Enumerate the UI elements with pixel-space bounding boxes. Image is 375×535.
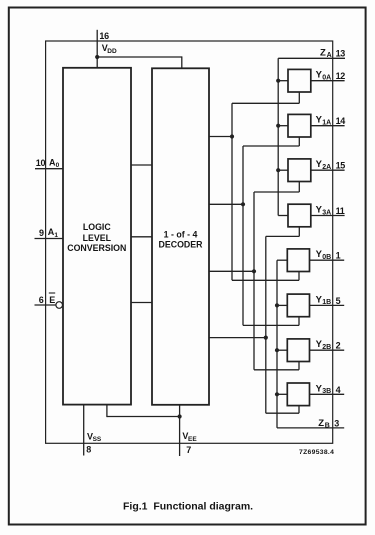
- pin 10 wire A0: [35, 168, 63, 170]
- node junction on bus at Y1A: [276, 124, 280, 128]
- VSS label: [87, 431, 102, 443]
- node Y1A label: [316, 115, 332, 127]
- transmission gate switch Y2A: [288, 159, 311, 182]
- inverter bubble on E input: [56, 302, 63, 309]
- wire bus stub to Y0B: [277, 259, 287, 261]
- wire control stub of Y0A: [232, 92, 299, 103]
- svg-text:1A: 1A: [322, 120, 331, 127]
- wire Y3A pin line: [311, 215, 345, 217]
- wire Y0B pin line: [310, 259, 345, 261]
- svg-text:7Z69538.4: 7Z69538.4: [299, 449, 334, 456]
- pin 1 label: [336, 251, 341, 261]
- svg-text:DECODER: DECODER: [159, 239, 204, 249]
- pin 15 label: [336, 161, 346, 171]
- pin 6 wire E enable: [35, 304, 56, 306]
- svg-text:7: 7: [186, 445, 191, 455]
- pin 7 label: [186, 445, 191, 455]
- IC outline box: [46, 41, 333, 443]
- wire decoder output 2: [209, 270, 254, 272]
- wire decoder output 3: [209, 337, 266, 339]
- transmission gate switch Y3A: [288, 204, 311, 227]
- node junction on bus at Y2A: [276, 168, 280, 172]
- node Y0A label: [316, 70, 332, 82]
- svg-text:2A: 2A: [322, 164, 331, 171]
- pin 4 label: [336, 385, 341, 395]
- svg-text:1B: 1B: [322, 299, 331, 306]
- svg-text:4: 4: [336, 385, 341, 395]
- wire Z_A bus: [277, 58, 279, 215]
- pin 3 label: [334, 419, 339, 429]
- wire Y0A pin line: [311, 80, 345, 82]
- svg-text:16: 16: [99, 31, 109, 41]
- pin 9 wire A1: [35, 238, 64, 240]
- wire bus stub to Y2B: [277, 349, 287, 351]
- svg-text:5: 5: [336, 296, 341, 306]
- svg-text:B: B: [325, 423, 330, 430]
- transmission gate switch Y0B: [287, 249, 309, 272]
- svg-text:6: 6: [39, 295, 44, 305]
- svg-text:12: 12: [336, 71, 346, 81]
- node Z_A label: [320, 47, 332, 59]
- block 1-of-4 DECODER: [152, 68, 209, 405]
- svg-text:3B: 3B: [322, 388, 331, 395]
- wire VDD branch to decoder: [97, 56, 182, 68]
- transmission gate switch Y3B: [287, 383, 309, 406]
- svg-text:1: 1: [54, 232, 58, 239]
- wire conversion to decoder E: [131, 302, 152, 304]
- svg-text:Fig.1 Functional diagram.: Fig.1 Functional diagram.: [123, 501, 253, 513]
- wire Y1A pin line: [311, 125, 345, 127]
- pin 7 VEE stub wire: [179, 405, 181, 456]
- svg-text:E: E: [49, 295, 55, 305]
- pin 2 label: [336, 341, 341, 351]
- pin 16 label: [99, 31, 109, 41]
- node VDD junction: [95, 55, 99, 59]
- svg-text:Z: Z: [320, 47, 326, 58]
- transmission gate switch Y1B: [287, 294, 309, 317]
- wire conversion to decoder A0: [131, 164, 152, 166]
- pin 8 label: [86, 444, 91, 454]
- wire bus stub to Y3B: [277, 393, 287, 395]
- node junction on bus at Y1B: [275, 303, 279, 307]
- pin 10 label: [36, 158, 46, 168]
- wire control stub of Y2A: [254, 182, 299, 193]
- wire Z_B pin 3 line: [277, 427, 344, 429]
- svg-text:LEVEL: LEVEL: [83, 233, 112, 243]
- node A0 label: [49, 157, 60, 169]
- svg-text:DD: DD: [107, 48, 117, 55]
- svg-text:LOGIC: LOGIC: [83, 222, 112, 232]
- svg-text:2B: 2B: [322, 344, 331, 351]
- drawing code 7Z69538.4: [299, 449, 334, 456]
- pin 16 VDD stub wire: [96, 30, 98, 68]
- wire bus stub to Y3A: [278, 215, 288, 217]
- wire control stub of Y0B: [232, 272, 299, 281]
- svg-text:14: 14: [336, 116, 346, 126]
- svg-text:9: 9: [39, 228, 44, 238]
- node Y2B label: [316, 339, 332, 351]
- wire control stub of Y3B: [266, 406, 299, 414]
- svg-text:Z: Z: [318, 418, 324, 429]
- node E label with overline: [49, 293, 55, 305]
- node A1 label: [48, 227, 59, 239]
- svg-text:0: 0: [56, 162, 60, 169]
- svg-text:SS: SS: [93, 436, 102, 443]
- node Y3B label: [316, 383, 332, 395]
- pin 8 VSS stub wire: [83, 405, 85, 456]
- wire control net 3 vertical: [265, 236, 267, 413]
- svg-text:3A: 3A: [322, 209, 331, 216]
- svg-text:0A: 0A: [322, 75, 331, 82]
- node Y2A label: [316, 159, 332, 171]
- pin 12 label: [336, 71, 346, 81]
- caption Fig.1 Functional diagram: [123, 501, 253, 513]
- wire VEE branch to logic block: [107, 405, 180, 418]
- svg-text:3: 3: [334, 419, 339, 429]
- pin 13 label: [336, 48, 346, 58]
- node VEE junction: [178, 414, 182, 418]
- wire control net 1 vertical: [242, 146, 244, 325]
- node junction on bus at Y3B: [275, 392, 279, 396]
- wire control net 0 vertical: [231, 103, 233, 280]
- node Y3A label: [316, 205, 332, 217]
- transmission gate switch Y2B: [287, 339, 309, 362]
- wire bus stub to Y2A: [278, 169, 288, 171]
- wire decoder output 1: [209, 203, 243, 205]
- svg-text:A: A: [327, 52, 332, 59]
- svg-text:1 - of - 4: 1 - of - 4: [164, 230, 198, 240]
- pin 14 label: [336, 116, 346, 126]
- wire Y1B pin line: [310, 304, 345, 306]
- node decoder output 1 junction: [241, 202, 245, 206]
- svg-text:1: 1: [336, 251, 341, 261]
- node decoder output 2 junction: [252, 269, 256, 273]
- pin 5 label: [336, 296, 341, 306]
- transmission gate switch Y0A: [288, 69, 311, 92]
- VDD label: [102, 43, 117, 55]
- wire Y2A pin line: [311, 169, 345, 171]
- wire control stub of Y1A: [243, 137, 299, 146]
- pin 11 label: [336, 206, 345, 216]
- wire bus stub to Y1A: [278, 125, 288, 127]
- wire control net 2 vertical: [253, 192, 255, 370]
- pin 6 label: [39, 295, 44, 305]
- node Z_B label: [318, 418, 330, 430]
- node decoder output 3 junction: [264, 336, 268, 340]
- node Y0B label: [316, 249, 332, 261]
- node junction on bus at Y2B: [275, 348, 279, 352]
- wire Y3B pin line: [310, 393, 345, 395]
- svg-text:0B: 0B: [322, 254, 331, 261]
- pin 9 label: [39, 228, 44, 238]
- wire bus stub to Y1B: [277, 304, 287, 306]
- VEE label: [182, 431, 197, 443]
- node junction on bus at Y0A: [276, 79, 280, 83]
- wire Z_B bus: [276, 260, 278, 428]
- block LOGIC LEVEL CONVERSION: [63, 68, 131, 405]
- node Y1B label: [316, 294, 332, 306]
- transmission gate switch Y1A: [288, 114, 311, 137]
- svg-text:11: 11: [336, 206, 345, 216]
- svg-text:10: 10: [36, 158, 46, 168]
- wire bus stub to Y0A: [278, 80, 288, 82]
- svg-text:8: 8: [86, 444, 91, 454]
- wire control stub of Y3A: [266, 227, 300, 237]
- wire decoder output 0: [209, 136, 232, 138]
- svg-text:15: 15: [336, 161, 346, 171]
- wire control stub of Y2B: [254, 362, 299, 370]
- wire Z_A pin 13 line: [278, 57, 345, 59]
- svg-text:13: 13: [336, 48, 346, 58]
- svg-text:2: 2: [336, 341, 341, 351]
- wire control stub of Y1B: [243, 317, 299, 326]
- wire conversion to decoder A1: [131, 236, 152, 238]
- wire Y2B pin line: [310, 349, 345, 351]
- node decoder output 0 junction: [230, 134, 234, 138]
- svg-text:EE: EE: [188, 436, 197, 443]
- svg-text:CONVERSION: CONVERSION: [67, 243, 126, 253]
